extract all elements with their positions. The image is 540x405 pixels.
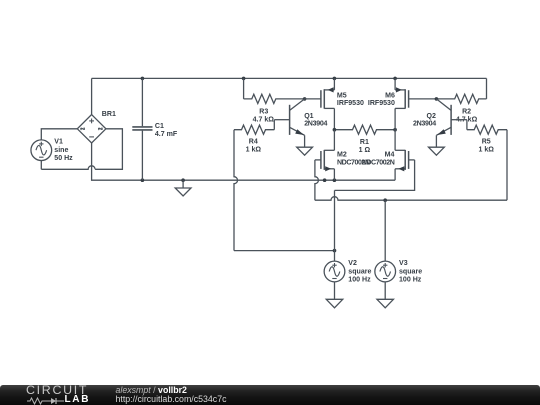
svg-text:1 Ω: 1 Ω [359,147,371,154]
svg-text:1 kΩ: 1 kΩ [246,147,262,154]
svg-text:BR1: BR1 [102,111,116,118]
svg-text:Q1: Q1 [304,113,313,120]
svg-text:IRF9530: IRF9530 [368,100,395,107]
svg-text:M5: M5 [337,93,347,100]
svg-text:100 Hz: 100 Hz [399,276,422,283]
svg-text:R3: R3 [259,109,268,116]
svg-text:M2: M2 [337,152,347,159]
svg-text:M6: M6 [385,93,395,100]
svg-text:IRF9530: IRF9530 [337,100,364,107]
svg-text:square: square [399,268,422,275]
svg-text:NDC7002N: NDC7002N [362,160,395,167]
svg-text:1 kΩ: 1 kΩ [478,147,494,154]
svg-text:M4: M4 [385,152,395,159]
svg-text:4.7 mF: 4.7 mF [155,131,178,138]
svg-text:C1: C1 [155,123,164,130]
svg-text:4.7 kΩ: 4.7 kΩ [253,117,275,124]
svg-text:V3: V3 [399,260,408,267]
svg-text:R4: R4 [249,139,258,146]
svg-text:50 Hz: 50 Hz [54,155,73,162]
svg-text:Q2: Q2 [426,113,435,120]
svg-text:V1: V1 [54,139,63,146]
svg-text:2N3904: 2N3904 [304,121,327,128]
svg-text:100 Hz: 100 Hz [348,276,371,283]
svg-text:V2: V2 [348,260,357,267]
svg-text:sine: sine [54,147,68,154]
svg-text:2N3904: 2N3904 [413,121,436,128]
svg-text:square: square [348,268,371,275]
svg-text:R5: R5 [482,139,491,146]
svg-text:R1: R1 [360,139,369,146]
svg-text:R2: R2 [462,109,471,116]
